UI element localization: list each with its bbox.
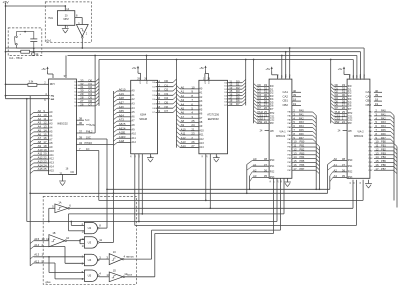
CPU pin A4 [30, 128, 33, 131]
CPU pin A13 [30, 163, 33, 166]
VIA-2 pin PB0 [374, 142, 394, 144]
svg-text:D3: D3 [152, 95, 154, 97]
clock rail PHI2 [6, 47, 365, 49]
svg-text:W65C02: W65C02 [57, 122, 68, 126]
VIA-2 pin PB2 [374, 150, 394, 152]
+5V [47, 68, 49, 72]
svg-text:37: 37 [64, 74, 68, 78]
svg-text:D5: D5 [75, 99, 77, 101]
VIA-1 pin PB3 [292, 154, 316, 156]
reset resistor R2 [21, 50, 30, 53]
svg-text:D0: D0 [75, 81, 77, 83]
svg-text:36: 36 [79, 121, 83, 125]
clock wire [81, 38, 83, 48]
svg-text:CA2: CA2 [366, 94, 372, 98]
VIA-1 pin RS3 [250, 178, 253, 182]
reset capacitor C1 [30, 38, 37, 40]
SRAM pin D2 [156, 90, 174, 92]
svg-text:PA4: PA4 [381, 124, 386, 128]
VIA-1 pin CA2 [292, 96, 301, 98]
EPROM pin A13 [177, 140, 181, 143]
EPROM U4 27C256 [199, 80, 228, 154]
svg-text:W65C22: W65C22 [276, 135, 286, 138]
VIA-1 pin PB6 [292, 165, 316, 167]
CPU IRQ wire [6, 95, 50, 97]
svg-text:RDY: RDY [50, 82, 56, 86]
svg-text:23: 23 [353, 182, 355, 184]
svg-text:PA3: PA3 [299, 120, 304, 124]
svg-text:t2n1: t2n1 [46, 39, 52, 43]
SRAM pin D4 [156, 99, 174, 101]
svg-text:19: 19 [293, 102, 297, 106]
EPROM pin A1 [177, 90, 181, 93]
svg-text:PA0: PA0 [299, 109, 304, 113]
VIA VIA-2 pin CS2 [331, 117, 334, 120]
svg-text:SRAM: SRAM [139, 117, 148, 121]
svg-text:D1: D1 [224, 86, 226, 88]
VIA-1 pin PB1 [292, 146, 316, 148]
svg-text:7M1: 7M1 [48, 17, 53, 20]
SRAM pin D7 [156, 112, 174, 114]
VIA-1 pin PB2 [292, 150, 316, 152]
svg-text:A15: A15 [38, 167, 43, 171]
CPU RDY pull-up resistor R1 3.3k [6, 83, 28, 85]
svg-text:11: 11 [46, 237, 49, 241]
VIA-2 pin PA3 [374, 123, 391, 125]
svg-text:+5v: +5v [199, 66, 204, 70]
VIA-1 pin CB1 [292, 100, 301, 102]
svg-text:6264: 6264 [140, 112, 146, 116]
svg-text:19: 19 [229, 102, 233, 106]
CPU pin A14 [30, 167, 33, 170]
svg-text:A0: A0 [334, 157, 338, 161]
CPU PHI2 top wire [65, 56, 67, 79]
svg-text:A1: A1 [334, 163, 338, 167]
EPROM pin D6 [228, 101, 243, 103]
svg-text:NMI: NMI [51, 99, 55, 101]
EPROM pin D2 [228, 88, 243, 90]
rail RW [68, 55, 357, 57]
svg-text:20: 20 [131, 155, 133, 157]
svg-text:A14: A14 [49, 164, 54, 168]
svg-text:+5v: +5v [265, 67, 270, 71]
SRAM pin A6 [114, 117, 118, 120]
VIA-2 pin CA1 [374, 91, 382, 93]
svg-text:CA1: CA1 [283, 90, 289, 94]
inverter U7A [48, 208, 50, 221]
SRAM pin D5 [156, 103, 174, 105]
svg-text:D1: D1 [152, 86, 154, 88]
EPROM pin A14 [177, 144, 181, 147]
EPROM pin D5 [228, 98, 243, 100]
svg-text:A13: A13 [49, 161, 54, 165]
VIA-2 port A bus [393, 116, 395, 201]
SRAM pin A8 [114, 125, 118, 128]
VIA-2 CS bottom wires [352, 180, 354, 209]
svg-text:D3: D3 [75, 92, 77, 94]
svg-text:U3: U3 [88, 240, 92, 244]
svg-text:13: 13 [82, 244, 86, 248]
svg-text:D0: D0 [224, 82, 226, 84]
CPU ground [62, 175, 64, 182]
reset circuit box [8, 28, 42, 56]
EPROM data bus riser [245, 60, 247, 106]
svg-text:PHI2O: PHI2O [85, 141, 93, 145]
VIA VIA-2 pin D3 [331, 93, 334, 96]
CPU pin D7 [78, 105, 96, 107]
VIA-2 pin PA5 [374, 130, 391, 132]
VIA-1 pin PA7 [292, 138, 313, 140]
svg-text:39: 39 [79, 135, 83, 139]
NAND U8A output wire [99, 227, 107, 229]
svg-text:CB1: CB1 [366, 99, 372, 103]
svg-text:RW: RW [258, 120, 263, 124]
NAND U9B [84, 270, 97, 281]
svg-text:A12: A12 [131, 140, 136, 144]
VIA VIA-2 W65C22 [347, 79, 370, 178]
svg-text:A11: A11 [49, 153, 54, 157]
NAND U8A [70, 222, 72, 226]
svg-text:PA6: PA6 [381, 132, 386, 136]
CPU address bus [29, 96, 31, 266]
svg-text:D2: D2 [152, 91, 154, 93]
EPROM pin A11 [177, 132, 181, 135]
CPU data bus riser [98, 60, 100, 106]
CPU pin A5 [30, 132, 33, 135]
svg-text:A14: A14 [199, 145, 204, 149]
VIA U5 data bus riser [253, 60, 255, 124]
SRAM pin A12 [114, 143, 118, 146]
VIA VIA-2 pin D2 [331, 90, 334, 93]
svg-text:22: 22 [264, 120, 268, 124]
EPROM pin A6 [177, 111, 181, 114]
svg-text:PB3: PB3 [381, 151, 386, 155]
VIA-1 pin PA2 [292, 119, 313, 121]
svg-text:40: 40 [293, 89, 297, 93]
VIA-2 power and control top wires [343, 68, 345, 72]
svg-text:RS3: RS3 [348, 177, 353, 179]
EPROM pin A12 [177, 136, 181, 139]
svg-text:+5v: +5v [41, 67, 46, 71]
svg-text:CA1: CA1 [366, 90, 372, 94]
VIA-1 pin CB2 [292, 105, 301, 107]
svg-text:13: 13 [106, 273, 110, 277]
SRAM WE wire [141, 154, 143, 214]
inverter U7B output wire [67, 240, 80, 242]
EPROM pin D0 [228, 82, 243, 84]
svg-text:21: 21 [281, 181, 283, 183]
svg-text:A2: A2 [253, 169, 257, 173]
svg-text:RW: RW [282, 75, 284, 78]
svg-text:A15: A15 [49, 168, 54, 172]
SRAM pin A1 [114, 95, 118, 98]
VIA VIA-1 pin D7 [254, 106, 257, 109]
svg-text:bxt - 7812: bxt - 7812 [10, 56, 23, 60]
VIA-1 port B bus [318, 147, 320, 190]
inverter U7D [99, 276, 109, 278]
reset diode D1 [32, 53, 35, 55]
svg-text:37: 37 [264, 163, 268, 167]
CPU pin A10 [30, 151, 33, 154]
svg-text:W65C22: W65C22 [354, 135, 364, 138]
oscillator pin 14 wire [64, 6, 66, 11]
CPU pin A3 [30, 124, 33, 127]
NAND U8B output wire [99, 241, 113, 243]
svg-text:PB7: PB7 [300, 167, 305, 171]
VIA-1 pin PA6 [292, 134, 313, 136]
oscillator box [45, 2, 91, 42]
svg-text:A12: A12 [49, 157, 54, 161]
svg-text:RW: RW [335, 120, 340, 124]
VIA VIA-2 pin D4 [331, 97, 334, 100]
svg-text:CS1: CS1 [270, 116, 275, 118]
svg-text:D6: D6 [75, 102, 77, 104]
svg-text:A10: A10 [49, 149, 54, 153]
svg-text:36: 36 [264, 169, 268, 173]
ground [62, 27, 69, 29]
svg-text:VIA-2: VIA-2 [357, 131, 364, 134]
NAND U8B [79, 239, 81, 243]
svg-text:PB0: PB0 [300, 140, 305, 144]
EPROM pin A3 [177, 98, 181, 101]
svg-text:19: 19 [157, 109, 161, 113]
CPU pin A11 [30, 155, 33, 158]
svg-text:D4: D4 [75, 95, 77, 97]
svg-text:D6: D6 [224, 102, 226, 104]
svg-text:PB5: PB5 [300, 159, 305, 163]
svg-text:PH2: PH2 [289, 74, 291, 77]
svg-text:RS1: RS1 [270, 166, 275, 168]
svg-text:1C: 1C [113, 250, 116, 254]
svg-text:PB1: PB1 [300, 144, 305, 148]
VIA-2 pin PA7 [374, 138, 391, 140]
SRAM pin D0 [156, 81, 174, 83]
svg-text:A3: A3 [334, 174, 338, 178]
CPU pin PHI2O wire [76, 138, 107, 140]
svg-text:3.3k: 3.3k [29, 80, 35, 84]
VIA-1 pin PB7 [292, 169, 316, 171]
svg-text:RS3: RS3 [270, 177, 275, 179]
CPU pin BE +5v [76, 124, 84, 126]
svg-text:PB7: PB7 [381, 167, 386, 171]
svg-text:RS0: RS0 [270, 160, 275, 162]
VIA-1 ground [287, 178, 289, 182]
svg-text:2: 2 [274, 182, 276, 183]
svg-text:CA2: CA2 [283, 94, 289, 98]
svg-text:PB2: PB2 [381, 147, 386, 151]
CPU pin A7 [30, 140, 33, 143]
VIA-1 pin PB5 [292, 162, 316, 164]
+5V [205, 67, 207, 71]
VIA VIA-2 pin D7 [331, 106, 334, 109]
EPROM pin A2 [177, 94, 181, 97]
svg-text:CS2: CS2 [270, 120, 275, 122]
svg-text:39: 39 [293, 93, 297, 97]
select wire b3 [69, 213, 285, 215]
CPU pin RW wire [76, 144, 113, 146]
svg-text:PA2: PA2 [381, 116, 386, 120]
svg-text:A10: A10 [131, 132, 136, 136]
svg-text:MHZ: MHZ [64, 18, 70, 21]
VIA VIA-2 pin D5 [331, 100, 334, 103]
EPROM pin D1 [228, 85, 243, 87]
svg-text:PA2: PA2 [299, 116, 304, 120]
VIA-1 CS bottom wires [273, 178, 275, 233]
svg-text:RS0: RS0 [348, 160, 353, 162]
VIA-2 pin PA2 [374, 119, 391, 121]
svg-text:CS2: CS2 [147, 81, 149, 85]
svg-text:A11: A11 [199, 133, 204, 137]
oscillator pin 7 wire [64, 25, 66, 28]
inverter U7B A15 [30, 241, 33, 244]
svg-text:22: 22 [342, 120, 346, 124]
VIA-2 pin PA0 [374, 111, 391, 113]
svg-text:PA7: PA7 [299, 136, 304, 140]
RAM select output wire [124, 258, 152, 260]
svg-text:1A: 1A [58, 200, 61, 204]
svg-text:10: 10 [66, 236, 70, 240]
svg-text:A1: A1 [253, 163, 257, 167]
svg-text:RS1: RS1 [348, 166, 353, 168]
VIA VIA-1 pin D5 [254, 100, 257, 103]
svg-text:CS1: CS1 [348, 116, 353, 118]
svg-text:EEPROM: EEPROM [208, 118, 219, 121]
CPU pin SO [76, 119, 84, 121]
SRAM U3 6264 [131, 80, 158, 154]
EPROM pin A0 [177, 86, 181, 89]
SRAM ground [149, 154, 151, 158]
svg-text:D7: D7 [152, 112, 154, 114]
svg-text:PA7: PA7 [381, 136, 386, 140]
VIA-1 RS riser [246, 165, 248, 194]
svg-text:27: 27 [139, 155, 141, 157]
svg-text:PA5: PA5 [381, 128, 386, 132]
VIA VIA-1 pin PH2 [254, 110, 257, 113]
svg-text:U4: U4 [88, 258, 92, 262]
svg-text:CB2: CB2 [283, 103, 289, 107]
data-address bus riser [176, 60, 178, 148]
VIA-1 pin RS0 [247, 161, 252, 165]
VIA-1 pin CA1 [292, 91, 301, 93]
CPU NMI wire [6, 98, 50, 100]
svg-text:PA4: PA4 [299, 124, 304, 128]
CPU pin A6 [30, 136, 33, 139]
svg-text:U2: U2 [88, 226, 92, 230]
VIA-2 pin PA6 [374, 134, 391, 136]
svg-text:34: 34 [79, 141, 83, 145]
svg-text:D7: D7 [348, 107, 352, 111]
svg-text:PA1: PA1 [381, 112, 386, 116]
VIA-1 pin PB0 [292, 142, 316, 144]
svg-text:35: 35 [264, 174, 268, 178]
CPU pin D6 [78, 101, 96, 103]
svg-text:CS2: CS2 [348, 120, 353, 122]
svg-text:PB2: PB2 [300, 147, 305, 151]
svg-text:glue: glue [46, 280, 52, 284]
svg-text:22: 22 [135, 155, 137, 157]
svg-text:11: 11 [99, 238, 102, 242]
VIA-2 RS riser [327, 165, 329, 194]
select wire b1 [99, 199, 363, 201]
SRAM CS2 wire from rail [146, 56, 148, 81]
CPU pin D1 [78, 84, 96, 86]
EPROM CE wire [205, 154, 207, 201]
svg-text:38: 38 [264, 157, 268, 161]
svg-text:35: 35 [342, 174, 346, 178]
VIA VIA-1 pin RW [254, 120, 257, 123]
SRAM pin A3 [114, 104, 118, 107]
svg-text:A13: A13 [199, 141, 204, 145]
svg-text:36: 36 [342, 169, 346, 173]
SRAM pin A11 [114, 138, 118, 141]
EPROM pin D4 [228, 95, 243, 97]
svg-text:27: 27 [191, 144, 195, 148]
svg-text:NC: NC [71, 170, 75, 174]
VIA VIA-2 pin CS2B [343, 130, 348, 132]
svg-text:10: 10 [82, 230, 86, 234]
svg-text:1B: 1B [52, 231, 55, 235]
svg-text:PB6: PB6 [300, 163, 305, 167]
svg-text:D6: D6 [152, 108, 154, 110]
VIA VIA-1 pin D3 [254, 93, 257, 96]
svg-text:37: 37 [79, 129, 83, 133]
svg-text:ramcs: ramcs [126, 255, 134, 259]
svg-text:PA1: PA1 [299, 112, 304, 116]
VIA VIA-1 pin D4 [254, 97, 257, 100]
VIA-2 pin CB1 [374, 100, 382, 102]
svg-text:D7: D7 [75, 106, 77, 108]
svg-text:18: 18 [293, 98, 297, 102]
VIA-2 pin RS1 [328, 166, 333, 170]
VIA-1 pin PA5 [292, 130, 313, 132]
SRAM pin A9 [114, 130, 118, 133]
VIA VIA-1 pin D1 [254, 87, 257, 90]
VIA-2 ground [368, 180, 370, 184]
svg-text:PB4: PB4 [300, 155, 305, 159]
svg-text:D2: D2 [75, 88, 77, 90]
NAND U9A [84, 254, 97, 265]
clock buffer U1A [76, 25, 88, 37]
svg-text:17: 17 [375, 167, 379, 171]
svg-text:A10: A10 [199, 128, 204, 132]
EPROM ground [215, 154, 217, 158]
oscillator pin 8 wire [75, 17, 82, 19]
reset node wire [33, 48, 35, 52]
svg-text:D4: D4 [152, 99, 154, 101]
svg-text:RS2: RS2 [348, 172, 353, 174]
reset switch S1 [17, 32, 34, 49]
SRAM pin A2 [114, 100, 118, 103]
SRAM pin D1 [156, 86, 174, 88]
EPROM OE wire [209, 154, 211, 209]
svg-text:A14: A14 [181, 144, 186, 148]
svg-text:17: 17 [293, 167, 297, 171]
EPROM pin A5 [177, 106, 181, 109]
VIA VIA-2 pin D0 [331, 84, 334, 87]
svg-text:D1: D1 [75, 85, 77, 87]
VIA-2 pin PB4 [374, 158, 394, 160]
VIA-2 pin PB6 [374, 165, 394, 167]
svg-text:D5: D5 [152, 104, 154, 106]
select wire b6 [152, 229, 281, 231]
inverter U7C [99, 258, 109, 260]
svg-text:AT27C256: AT27C256 [207, 113, 219, 116]
VIA-2 pin PA1 [374, 115, 391, 117]
glue feed wire [27, 221, 277, 223]
rail corners into VIA-2 [352, 60, 354, 80]
svg-text:20: 20 [202, 155, 204, 157]
VIA VIA-1 pin D6 [254, 103, 257, 106]
